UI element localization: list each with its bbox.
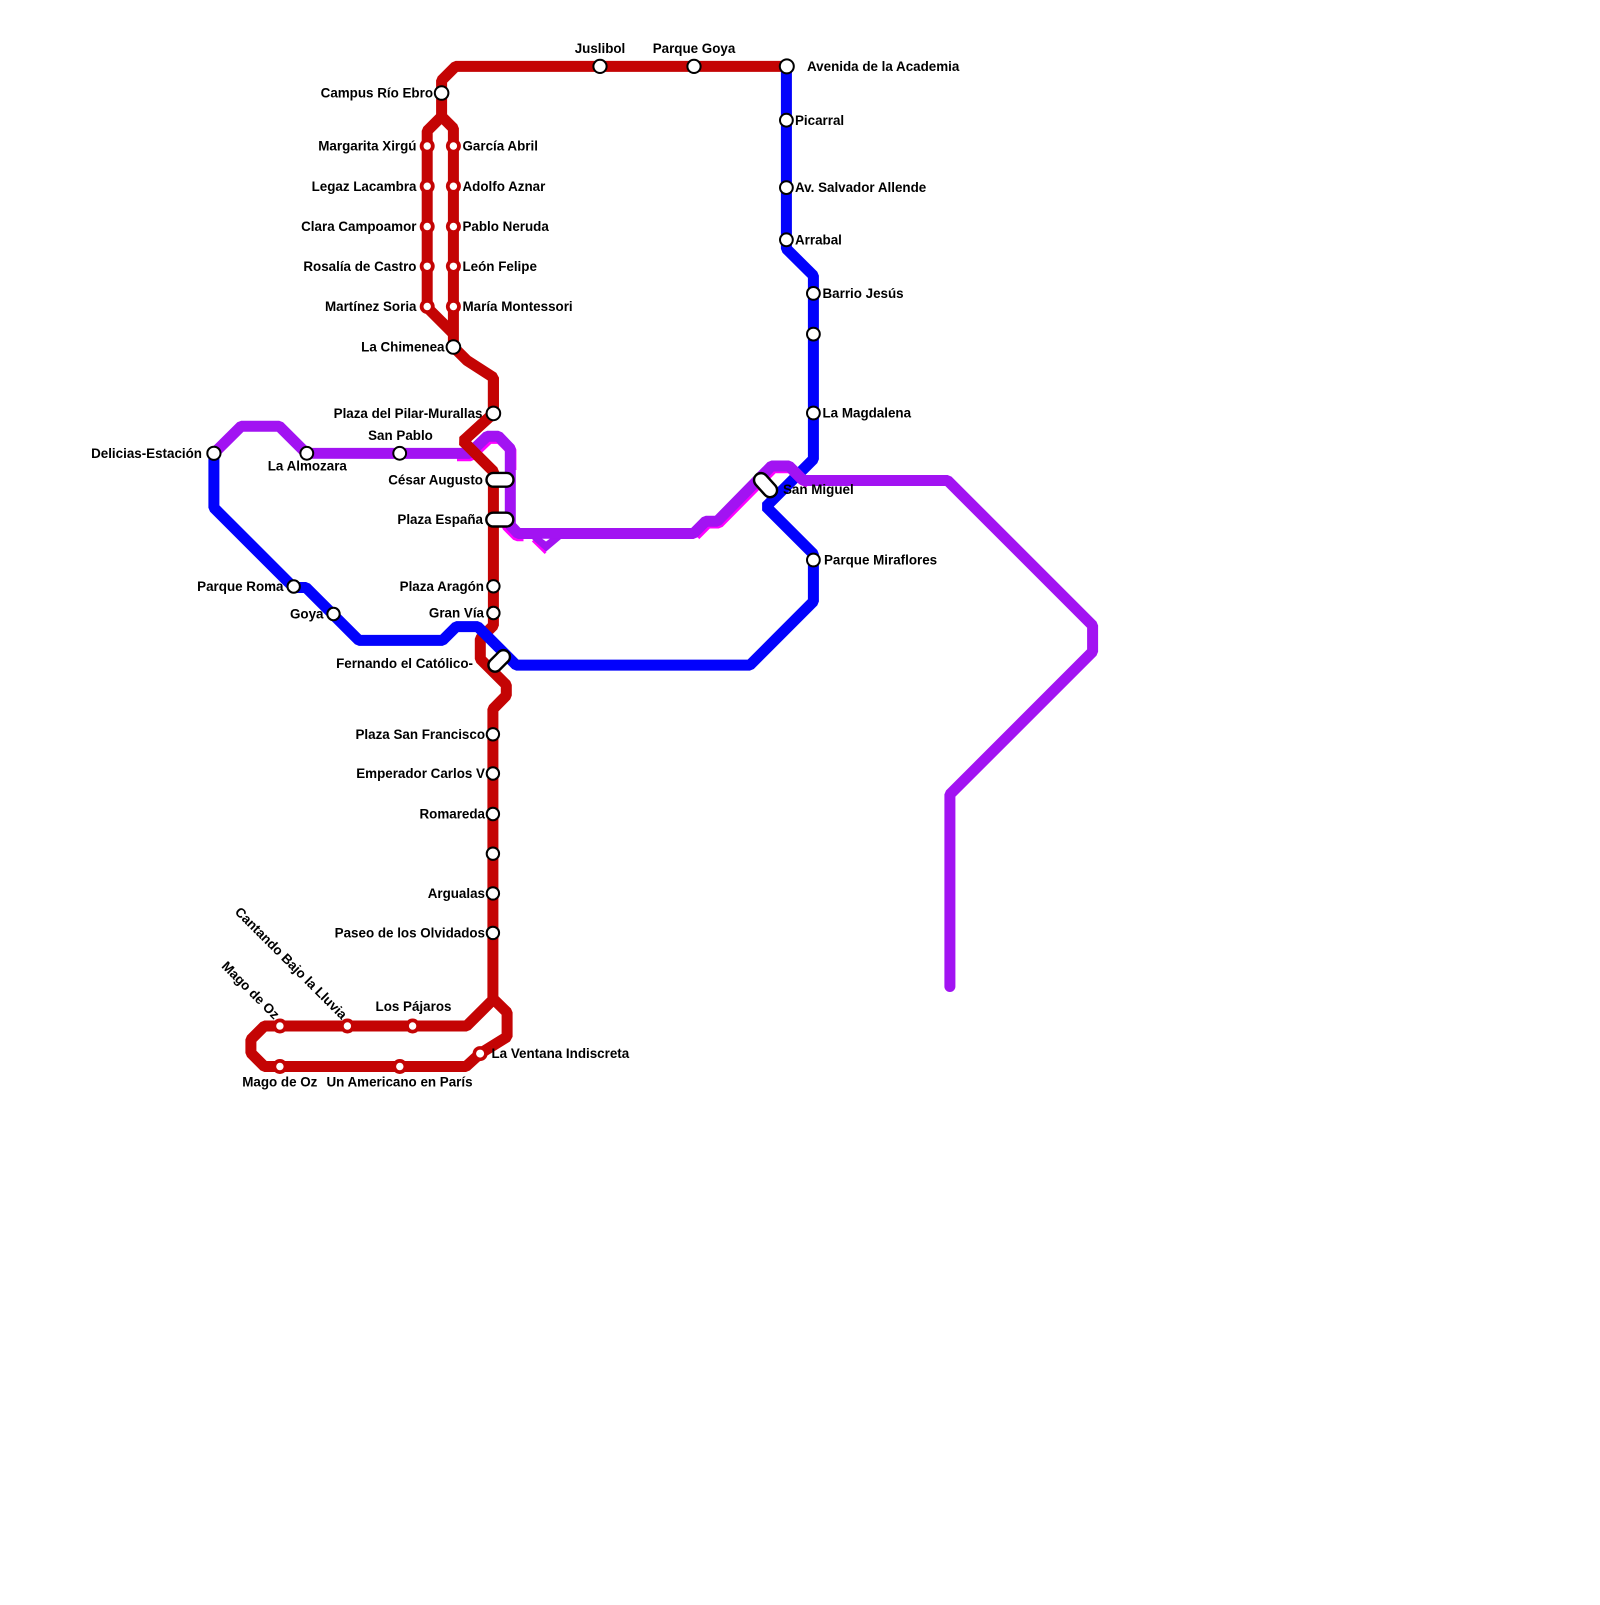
svg-text:Plaza del Pilar-Murallas: Plaza del Pilar-Murallas — [334, 406, 483, 421]
svg-text:San Miguel: San Miguel — [783, 482, 854, 497]
svg-text:Juslibol: Juslibol — [575, 41, 626, 56]
svg-text:Pablo Neruda: Pablo Neruda — [463, 219, 550, 234]
svg-text:Rosalía de Castro: Rosalía de Castro — [303, 259, 416, 274]
svg-text:Parque Roma: Parque Roma — [197, 579, 284, 594]
svg-text:Clara Campoamor: Clara Campoamor — [301, 219, 417, 234]
svg-text:Parque Miraflores: Parque Miraflores — [824, 553, 937, 568]
svg-text:Barrio Jesús: Barrio Jesús — [823, 286, 904, 301]
svg-text:León Felipe: León Felipe — [463, 259, 537, 274]
svg-text:Los Pájaros: Los Pájaros — [376, 999, 452, 1014]
svg-text:Margarita Xirgú: Margarita Xirgú — [318, 139, 416, 154]
svg-text:Plaza España: Plaza España — [397, 512, 483, 527]
svg-text:Parque Goya: Parque Goya — [653, 41, 736, 56]
svg-text:César Augusto: César Augusto — [388, 472, 483, 487]
svg-text:San Pablo: San Pablo — [368, 428, 433, 443]
svg-text:García Abril: García Abril — [463, 139, 538, 154]
svg-text:Picarral: Picarral — [795, 113, 844, 128]
svg-text:Adolfo Aznar: Adolfo Aznar — [463, 179, 547, 194]
svg-text:Un Americano en París: Un Americano en París — [326, 1075, 472, 1090]
svg-text:Gran Vía: Gran Vía — [429, 606, 485, 621]
svg-text:Arrabal: Arrabal — [795, 232, 842, 247]
svg-text:La Ventana Indiscreta: La Ventana Indiscreta — [492, 1046, 630, 1061]
svg-text:Avenida de la Academia: Avenida de la Academia — [807, 59, 960, 74]
svg-text:Paseo de los Olvidados: Paseo de los Olvidados — [335, 926, 485, 941]
svg-text:Mago de Oz: Mago de Oz — [242, 1075, 317, 1090]
svg-text:La Chimenea: La Chimenea — [361, 340, 445, 355]
svg-text:Romareda: Romareda — [420, 807, 486, 822]
svg-text:Martínez Soria: Martínez Soria — [325, 299, 417, 314]
svg-text:María Montessori: María Montessori — [463, 299, 573, 314]
svg-text:Campus Río Ebro: Campus Río Ebro — [321, 86, 433, 101]
svg-text:Fernando el Católico-: Fernando el Católico- — [336, 656, 473, 671]
svg-text:Emperador Carlos V: Emperador Carlos V — [356, 766, 485, 781]
svg-text:Av. Salvador Allende: Av. Salvador Allende — [795, 180, 926, 195]
svg-text:Legaz Lacambra: Legaz Lacambra — [312, 179, 417, 194]
svg-text:Plaza San Francisco: Plaza San Francisco — [356, 727, 486, 742]
svg-text:Argualas: Argualas — [428, 886, 485, 901]
svg-text:La Magdalena: La Magdalena — [823, 406, 912, 421]
svg-text:Plaza Aragón: Plaza Aragón — [400, 579, 484, 594]
svg-text:Goya: Goya — [290, 607, 324, 622]
svg-text:La Almozara: La Almozara — [268, 459, 348, 474]
svg-text:Delicias-Estación: Delicias-Estación — [91, 446, 202, 461]
